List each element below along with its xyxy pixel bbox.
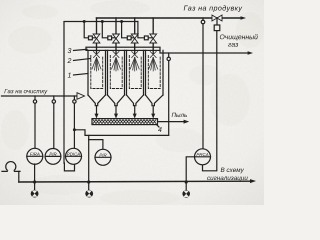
wire: FIRA to signal bus xyxy=(34,164,36,182)
label: Газ на очистку xyxy=(4,89,47,94)
node: branch junction unit1 xyxy=(83,20,86,23)
wire: unit 1 riser pipe xyxy=(96,18,98,54)
tag PDICA xyxy=(67,153,80,156)
wire: branch to valve of unit 2 xyxy=(102,22,116,38)
label 4 xyxy=(158,127,162,132)
arrow to Газ на продувку xyxy=(241,16,247,20)
square fitting on branch 1 xyxy=(89,36,93,40)
blow nozzle spray unit 2 xyxy=(112,52,121,72)
tap 3 on inlet line xyxy=(73,96,75,100)
leader line label 3 xyxy=(74,49,88,50)
dust drop arrow unit 1 xyxy=(96,106,98,115)
dust drop arrow unit 2 xyxy=(115,106,117,115)
label 4 leader xyxy=(156,124,159,127)
clean gas collecting duct (label 3) xyxy=(86,47,160,50)
alarm lamp 1 xyxy=(34,182,36,190)
tap on purge header to PRCA xyxy=(202,18,204,20)
wire: unit 4 riser pipe xyxy=(152,18,154,54)
tap on clean gas line xyxy=(168,53,170,57)
label 1 xyxy=(68,73,71,78)
instrument FIRA xyxy=(27,148,43,164)
hopper unit 4 xyxy=(146,95,164,106)
wire: branch to valve of unit 4 xyxy=(138,22,153,38)
bag (dashed) unit 3 xyxy=(129,56,141,89)
square fitting on branch 4 xyxy=(144,36,148,40)
wire: unit 2 riser pipe xyxy=(115,18,117,54)
bag (dashed) unit 2 xyxy=(110,56,122,89)
wire: dirty gas header (header2) xyxy=(64,22,138,97)
instrument PDICA xyxy=(66,148,82,164)
wire: branch to valve of unit 1 xyxy=(84,22,96,38)
tag PIR 4 xyxy=(99,154,106,157)
hopper unit 3 xyxy=(127,95,144,106)
filter unit 3 housing xyxy=(127,50,144,95)
label: Газ на продувку xyxy=(184,5,243,12)
alarm lamp 3 xyxy=(185,182,187,190)
wire: PRCA left to signal bus xyxy=(186,157,195,182)
bell symbol at bus start xyxy=(6,162,16,172)
wire: impulse to PDICA xyxy=(73,103,75,148)
wire: purge gas header (Газ на продувку) xyxy=(97,17,242,19)
node: bus junction at PRCA xyxy=(185,180,188,183)
label: Очищенный xyxy=(220,34,258,40)
valve unit 1 (three-way) xyxy=(93,34,100,39)
filter unit 4 housing xyxy=(146,50,164,95)
wire: impulse from clean gas line down xyxy=(168,61,170,136)
wire: impulse line purge header to PRCA xyxy=(202,24,204,149)
actuator square of V5 xyxy=(214,25,220,31)
dust outlet arrow (Пыль) xyxy=(158,121,185,123)
wire: junction to clean-gas impulse xyxy=(74,130,168,136)
open arrow into filter block xyxy=(77,93,85,100)
wire: dirty gas inlet line xyxy=(2,95,78,97)
valve unit 4 (three-way) xyxy=(150,34,157,39)
bag (dashed) unit 1 xyxy=(91,56,103,89)
dust drop arrow unit 4 xyxy=(152,106,154,115)
wire: unit 3 riser pipe xyxy=(134,18,136,54)
alarm lamp 2 xyxy=(88,182,90,190)
paper background xyxy=(0,0,264,205)
label 2 xyxy=(67,58,71,63)
tap 1 on inlet line xyxy=(34,96,36,100)
hopper unit 2 xyxy=(108,95,125,106)
wire: branch to valve of unit 3 xyxy=(122,22,135,38)
node: bus junction mid xyxy=(87,180,90,183)
wire: control line PRCA to valve V5 xyxy=(203,31,217,171)
instrument PIR (4) xyxy=(95,149,111,165)
valve V5 on purge header xyxy=(212,15,217,21)
arrow: to alarm scheme xyxy=(250,179,256,183)
scan noise overlay xyxy=(0,0,264,205)
blow nozzle spray unit 4 xyxy=(149,52,158,72)
wire: impulse to PIR(2) xyxy=(53,103,55,149)
label 3 xyxy=(68,48,72,53)
tag PIR 2 xyxy=(49,153,56,156)
dust drop arrow unit 3 xyxy=(134,106,136,115)
node: branch junction unit3 xyxy=(120,20,123,23)
square fitting on branch 3 xyxy=(127,36,131,40)
node: bus junction at FIRA xyxy=(33,180,36,183)
tag FIRA xyxy=(30,153,40,156)
label: Пыль xyxy=(172,113,187,117)
node: branch junction unit2 xyxy=(101,20,104,23)
label: газ xyxy=(228,43,238,47)
leader line label 2 xyxy=(74,59,91,61)
tap 2 on inlet line xyxy=(53,96,55,100)
wire: valve stem to actuator square xyxy=(216,18,218,25)
wire: branch to PIR(4) xyxy=(89,140,103,150)
arrow to Очищенный газ xyxy=(248,51,253,55)
instrument PRCA xyxy=(195,149,211,165)
tag PRCA xyxy=(197,153,209,156)
wire: branch down to signal bus xyxy=(88,135,90,182)
valve unit 3 (three-way) xyxy=(131,34,138,39)
valve unit 2 (three-way) xyxy=(113,34,120,39)
wire: header2 impulse continuation down to PDICA box xyxy=(63,96,65,163)
wire: duct to clean gas outlet xyxy=(160,50,249,53)
instrument PIR (2) xyxy=(45,149,61,165)
label: В схему xyxy=(221,168,244,174)
label: сигнализации xyxy=(207,177,247,182)
screw conveyor (label 4) xyxy=(92,119,158,125)
bag (dashed) unit 4 xyxy=(148,56,160,89)
wire: signal bus to alarm xyxy=(19,180,251,183)
blow nozzle spray unit 3 xyxy=(130,52,139,72)
square fitting on branch 2 xyxy=(108,36,112,40)
filter unit 1 housing xyxy=(88,50,106,95)
blow nozzle spray unit 1 xyxy=(92,52,101,72)
hopper unit 1 xyxy=(88,95,106,106)
wire: impulse to FIRA xyxy=(34,103,36,148)
leader line label 1 xyxy=(74,74,89,76)
filter unit 2 housing xyxy=(108,50,125,95)
PDICA lower connection box xyxy=(64,163,74,171)
node: junction on PDICA impulse xyxy=(73,128,76,131)
